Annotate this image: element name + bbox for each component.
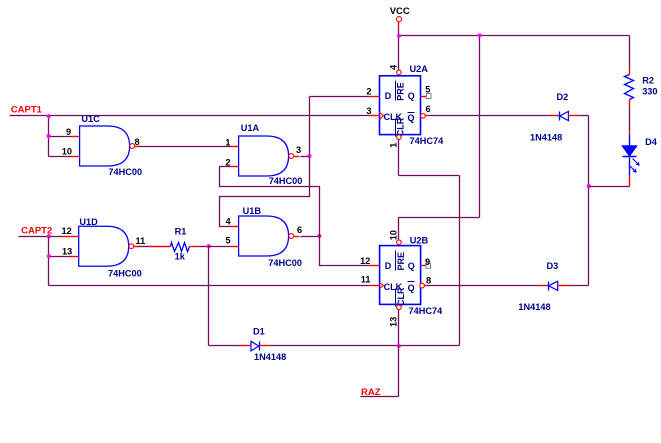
- power symbol VCC: [398, 22, 400, 29]
- svg-text:1N4148: 1N4148: [530, 132, 562, 142]
- wire R2 to D4: [629, 108, 631, 131]
- svg-text:U2A: U2A: [410, 64, 429, 74]
- wire to U1D pin 13: [49, 256, 72, 258]
- junction RAZ: [397, 344, 401, 348]
- svg-text:D3: D3: [547, 261, 559, 271]
- junction CAPT1: [47, 114, 51, 118]
- U2A pin 5 stub: [421, 96, 427, 98]
- wire to U1C pin 9: [49, 136, 72, 138]
- svg-text:PRE: PRE: [396, 252, 406, 271]
- svg-text:330: 330: [642, 87, 657, 97]
- svg-text:U1D: U1D: [79, 217, 98, 227]
- wire VCC to U2B PRE: [479, 36, 481, 218]
- wire D1 to RAZ junction: [269, 345, 460, 347]
- wire D2 to LED node: [580, 115, 589, 117]
- svg-text:74HC00: 74HC00: [269, 176, 303, 186]
- U2B pin 11 stub: [370, 285, 380, 287]
- wire U2B CLR to RAZ: [398, 310, 400, 346]
- U2A pin 3 stub: [370, 115, 380, 117]
- svg-text:D: D: [385, 261, 392, 271]
- svg-text:74HC00: 74HC00: [108, 269, 142, 279]
- wire RAZ drop corner to D1: [209, 345, 240, 347]
- svg-text:8: 8: [426, 275, 431, 285]
- svg-text:6: 6: [297, 225, 302, 235]
- svg-text:1: 1: [388, 143, 398, 148]
- junction CAPT1 pin9: [47, 134, 51, 138]
- wire R1 to junction: [199, 246, 209, 248]
- junction CAPT2 pin13: [47, 254, 51, 258]
- junction VCC-mid: [478, 33, 482, 37]
- svg-text:6: 6: [426, 104, 431, 114]
- svg-text:D2: D2: [557, 92, 569, 102]
- wire U1C out to U1A pin 1: [139, 146, 231, 148]
- diode D1: [240, 345, 252, 347]
- wire U1B out to U2B D: [320, 237, 370, 266]
- svg-text:D: D: [385, 91, 392, 101]
- wire CAPT1 rail to U2A CLK: [10, 115, 370, 117]
- junction U1B out: [317, 234, 321, 238]
- diode D2: [550, 115, 560, 117]
- svg-text:74HC00: 74HC00: [108, 167, 142, 177]
- wire U2B pin 8 to D3: [428, 285, 540, 287]
- svg-text:CLR: CLR: [396, 287, 406, 306]
- svg-text:9: 9: [425, 257, 430, 267]
- wire RAZ drop from R1 junction: [208, 247, 210, 346]
- svg-text:1N4148: 1N4148: [254, 352, 286, 362]
- U2B pin 9 no-connect square: [426, 263, 431, 268]
- wire U1A out to U1B pin 4: [220, 157, 310, 227]
- svg-text:3: 3: [296, 145, 301, 155]
- wire U1B out: [301, 236, 320, 238]
- svg-text:74HC00: 74HC00: [268, 258, 302, 268]
- wire U2A pin 6 to D2: [429, 115, 550, 117]
- junction VCC-U2A: [397, 34, 401, 38]
- svg-text:12: 12: [62, 226, 72, 236]
- wire CAPT1 drop: [48, 116, 50, 157]
- junction U1A out: [307, 154, 311, 158]
- U2A PRE bubble pin 4: [397, 70, 402, 75]
- svg-text:13: 13: [62, 246, 72, 256]
- wire VCC rail to R2: [629, 36, 631, 68]
- svg-text:1: 1: [225, 138, 230, 148]
- svg-text:Q: Q: [408, 91, 415, 101]
- svg-text:PRE: PRE: [396, 82, 406, 101]
- U2B Q-bar bubble pin 8: [420, 283, 425, 288]
- U2A Q-bar bubble pin 6: [421, 114, 426, 119]
- svg-text:5: 5: [226, 236, 231, 246]
- svg-text:2: 2: [366, 87, 371, 97]
- svg-text:3: 3: [366, 106, 371, 116]
- svg-text:U2B: U2B: [410, 235, 429, 245]
- wire R1 junction to U1B pin 5: [209, 246, 231, 248]
- svg-text:D1: D1: [253, 327, 265, 337]
- wire CAPT2 to U2B CLK: [49, 285, 370, 287]
- wire VCC to U2A PRE: [398, 36, 400, 70]
- svg-text:R2: R2: [642, 75, 654, 85]
- svg-text:VCC: VCC: [390, 6, 410, 17]
- port RAZ: [361, 396, 399, 398]
- nand gate U1C: [80, 126, 130, 166]
- svg-text:74HC74: 74HC74: [410, 136, 445, 146]
- svg-text:5: 5: [425, 84, 430, 94]
- U2A pin 2 stub: [370, 96, 380, 98]
- U2B CLR bubble pin 13: [397, 305, 402, 310]
- wire D3 to LED node: [571, 285, 589, 287]
- svg-text:1N4148: 1N4148: [518, 302, 550, 312]
- svg-text:Q: Q: [408, 113, 415, 123]
- svg-text:13: 13: [388, 317, 398, 327]
- nand gate U1D: [79, 226, 129, 266]
- svg-text:CAPT1: CAPT1: [11, 105, 43, 116]
- svg-text:1k: 1k: [175, 252, 186, 262]
- svg-text:12: 12: [360, 256, 370, 266]
- nand gate U1B: [239, 216, 289, 256]
- resistor R1: [150, 246, 171, 248]
- resistor R2: [629, 68, 631, 75]
- U2A CLR bubble pin 1: [397, 135, 402, 140]
- svg-text:RAZ: RAZ: [361, 387, 381, 398]
- wire CAPT2 drop: [48, 237, 50, 286]
- svg-text:U1A: U1A: [241, 123, 260, 133]
- svg-text:9: 9: [66, 127, 71, 137]
- led D4: [629, 131, 631, 135]
- svg-text:10: 10: [62, 147, 72, 157]
- wire RAZ riser: [459, 176, 461, 346]
- svg-text:CLR: CLR: [396, 117, 406, 136]
- wire VCC top rail: [400, 35, 630, 37]
- svg-text:2: 2: [225, 157, 230, 167]
- svg-text:Q: Q: [408, 261, 415, 271]
- nand gate U1A: [239, 136, 289, 176]
- svg-text:R1: R1: [175, 226, 187, 236]
- svg-text:Q: Q: [408, 283, 415, 293]
- junction CAPT2: [47, 234, 51, 238]
- svg-text:11: 11: [136, 236, 146, 246]
- flip-flop U2A: [380, 76, 421, 135]
- wire LED node to D4: [589, 186, 630, 188]
- svg-text:U1B: U1B: [243, 206, 262, 216]
- wire U1D out to R1: [137, 246, 150, 248]
- wire U1B out to U1A pin 2: [220, 167, 320, 237]
- svg-text:4: 4: [388, 64, 398, 70]
- diode D3: [540, 285, 549, 287]
- svg-text:74HC74: 74HC74: [409, 306, 444, 316]
- U2A pin 5 no-connect square: [426, 93, 431, 98]
- svg-text:D4: D4: [645, 137, 658, 147]
- U2B pin 9 stub: [421, 265, 426, 267]
- wire U1A out to U2A D: [301, 156, 310, 158]
- svg-text:U1C: U1C: [81, 114, 100, 124]
- U2B PRE bubble pin 10: [397, 240, 402, 245]
- svg-text:10: 10: [388, 230, 398, 240]
- wire to U1C pin 10: [49, 156, 72, 158]
- junction LED node: [587, 184, 591, 188]
- svg-text:8: 8: [135, 137, 140, 147]
- flip-flop U2B: [380, 246, 421, 305]
- wire CAPT2 rail: [19, 236, 61, 238]
- svg-text:11: 11: [361, 274, 371, 284]
- U2B pin 12 stub: [370, 265, 380, 267]
- svg-text:4: 4: [226, 216, 232, 226]
- junction R1 out: [207, 244, 211, 248]
